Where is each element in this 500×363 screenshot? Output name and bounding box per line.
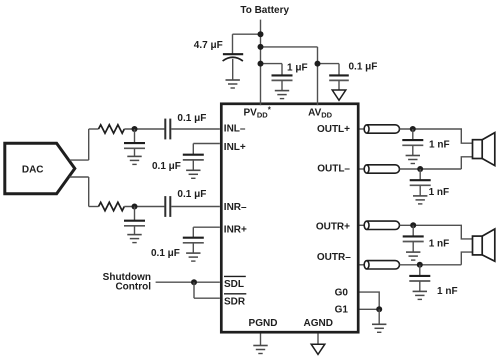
ferrite bead FB4 — [364, 261, 399, 269]
wire FB4 to speaker — [400, 252, 473, 265]
junction OUTL- node — [417, 166, 423, 172]
junction battery-C1 — [258, 31, 264, 37]
capacitor C10 1nF — [402, 129, 423, 156]
ground of C1 — [226, 80, 240, 88]
wire G1 to ground — [378, 309, 380, 324]
wire FB3 to speaker — [400, 225, 473, 239]
svg-text:4.7 μF: 4.7 μF — [194, 40, 223, 51]
junction shutdown node — [191, 279, 197, 285]
wire FB2 to speaker — [400, 157, 473, 169]
wire C3 stub — [338, 64, 340, 76]
capacitor C6 0.1uF at INL+ — [183, 155, 204, 171]
capacitor C7 0.1uF series — [165, 196, 170, 217]
svg-text:OUTL–: OUTL– — [317, 163, 350, 174]
capacitor C8 shunt at INR node — [124, 207, 145, 235]
wire to resistor R1 — [89, 128, 99, 130]
ground of C11 — [413, 196, 427, 204]
wire C7 to INR- pin — [171, 206, 220, 208]
ground of C6 — [186, 170, 200, 178]
wire to SDR — [194, 297, 220, 299]
junction battery-AVDD branch — [258, 44, 264, 50]
svg-text:OUTR–: OUTR– — [317, 252, 351, 263]
resistor R1 — [99, 125, 125, 133]
junction G1 node — [376, 306, 382, 312]
svg-text:G0: G0 — [335, 288, 349, 299]
svg-text:1 nF: 1 nF — [429, 238, 450, 249]
wire INL+ stub down — [192, 144, 194, 155]
wire battery branch to AVDD — [261, 46, 318, 48]
wire FB1 to speaker — [400, 129, 473, 143]
DAC block — [5, 143, 75, 194]
wire G0 — [360, 292, 380, 309]
svg-text:G1: G1 — [335, 305, 349, 316]
resistor R2 — [99, 202, 125, 210]
speaker SP2 — [473, 229, 495, 261]
ground of G1 — [372, 324, 386, 332]
wire INR+ stub down — [192, 227, 194, 238]
svg-text:DAC: DAC — [22, 165, 44, 176]
wire PGND stub — [260, 334, 262, 346]
svg-text:1 nF: 1 nF — [429, 139, 450, 150]
svg-text:INL+: INL+ — [224, 142, 246, 153]
wire INL+ pin — [193, 143, 220, 145]
ferrite bead FB1 — [364, 125, 399, 133]
capacitor C2 1uF — [272, 75, 293, 90]
svg-text:0.1 μF: 0.1 μF — [151, 248, 180, 259]
capacitor C5 shunt at INL node — [124, 129, 145, 156]
junction AVDD-decoupling row — [315, 61, 321, 67]
wire down to INR- row — [88, 177, 90, 207]
ground of C5 — [127, 156, 141, 164]
wire up to INL- row — [88, 129, 90, 160]
wire R2 to C7 — [124, 206, 164, 208]
capacitor C13 1nF — [409, 265, 430, 292]
wire C1 stub down — [232, 34, 234, 54]
ground of C2 — [275, 91, 289, 99]
svg-text:Control: Control — [115, 282, 151, 293]
wire C2 stub — [281, 64, 283, 76]
wire C3 branch stub — [318, 63, 340, 65]
capacitor C3 0.1uF — [329, 75, 349, 89]
svg-text:0.1 μF: 0.1 μF — [177, 113, 206, 124]
ground of C8 — [127, 235, 141, 243]
wire to resistor R2 — [89, 206, 99, 208]
wire C4 to INL- pin — [171, 128, 220, 130]
wire AGND stub — [317, 334, 319, 345]
wire shutdown to SDL — [156, 281, 220, 283]
svg-text:PGND: PGND — [249, 318, 278, 329]
wire OUTL+ to bead FB1 — [360, 128, 365, 130]
wire OUTR- to bead FB4 — [360, 264, 365, 266]
capacitor C12 1nF — [403, 225, 424, 252]
ground of C12 — [406, 252, 420, 260]
svg-text:0.1 μF: 0.1 μF — [177, 189, 206, 200]
svg-text:INR+: INR+ — [224, 224, 247, 235]
junction battery-decoupling row — [258, 61, 264, 67]
wire C2 branch stub — [261, 63, 283, 65]
wire DAC lower output — [70, 176, 89, 178]
capacitor C4 0.1uF series — [165, 119, 170, 140]
svg-text:INR–: INR– — [224, 202, 247, 213]
junction OUTL+ node — [410, 126, 416, 132]
svg-text:0.1 μF: 0.1 μF — [349, 61, 378, 72]
wire G1 — [360, 308, 380, 310]
ground of C13 — [413, 291, 427, 299]
wire battery branch left to C1 — [233, 33, 261, 35]
wire shutdown down — [193, 282, 195, 298]
junction OUTR+ node — [410, 222, 416, 228]
wire OUTR+ to bead FB3 — [360, 224, 365, 226]
speaker SP1 — [473, 133, 495, 166]
wire DAC upper output — [70, 159, 89, 161]
junction INL node — [132, 126, 138, 132]
analog ground triangle AGND — [311, 344, 325, 354]
ground of PGND — [253, 346, 267, 354]
svg-text:OUTR+: OUTR+ — [316, 222, 350, 233]
ground of C10 — [406, 156, 420, 164]
svg-text:INL–: INL– — [224, 123, 246, 134]
svg-text:AGND: AGND — [303, 318, 332, 329]
capacitor C1 4.7uF polarized — [223, 54, 244, 80]
ferrite bead FB2 — [364, 165, 399, 173]
wire battery vertical to PVDD — [260, 20, 262, 106]
wire AVDD vertical — [317, 47, 319, 105]
capacitor C11 1nF — [410, 169, 431, 196]
wire INR+ pin — [193, 226, 220, 228]
svg-text:To Battery: To Battery — [240, 5, 289, 16]
svg-text:1 μF: 1 μF — [287, 63, 308, 74]
svg-text:OUTL+: OUTL+ — [317, 124, 350, 135]
svg-text:SDR: SDR — [224, 296, 246, 307]
IC U1 amplifier body — [221, 104, 358, 332]
ferrite bead FB3 — [364, 221, 399, 229]
wire R1 to C4 — [124, 128, 164, 130]
svg-text:1 nF: 1 nF — [429, 187, 450, 198]
svg-text:SDL: SDL — [224, 279, 244, 290]
ground of C9 — [186, 253, 200, 261]
wire OUTL- to bead FB2 — [360, 168, 365, 170]
analog ground triangle of C3 — [332, 90, 346, 100]
junction OUTR- node — [417, 262, 423, 268]
svg-text:0.1 μF: 0.1 μF — [152, 161, 181, 172]
capacitor C9 0.1uF at INR+ — [183, 238, 204, 253]
junction INR node — [132, 204, 138, 210]
svg-text:1 nF: 1 nF — [437, 286, 458, 297]
